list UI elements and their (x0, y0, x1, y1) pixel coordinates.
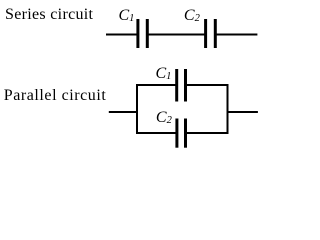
wire (227, 84, 229, 134)
wire (136, 84, 138, 134)
capacitor C1 (138, 19, 147, 48)
svg-text:Parallel circuit: Parallel circuit (4, 87, 107, 104)
wire (149, 34, 205, 36)
wire (186, 132, 229, 134)
svg-text:C1: C1 (119, 7, 135, 24)
svg-text:C1: C1 (156, 65, 172, 82)
svg-text:C2: C2 (184, 7, 201, 24)
wire (109, 111, 138, 113)
wire (228, 111, 258, 113)
svg-text:Series circuit: Series circuit (5, 6, 94, 23)
wire (136, 84, 177, 86)
wire (136, 132, 177, 134)
capacitor C4 (parallel bottom) (177, 119, 186, 148)
capacitor C3 (parallel top) (177, 69, 186, 102)
wire (217, 34, 258, 36)
wire (106, 34, 137, 36)
wire (186, 84, 229, 86)
capacitor C2 (206, 19, 216, 48)
svg-text:C2: C2 (156, 109, 173, 126)
